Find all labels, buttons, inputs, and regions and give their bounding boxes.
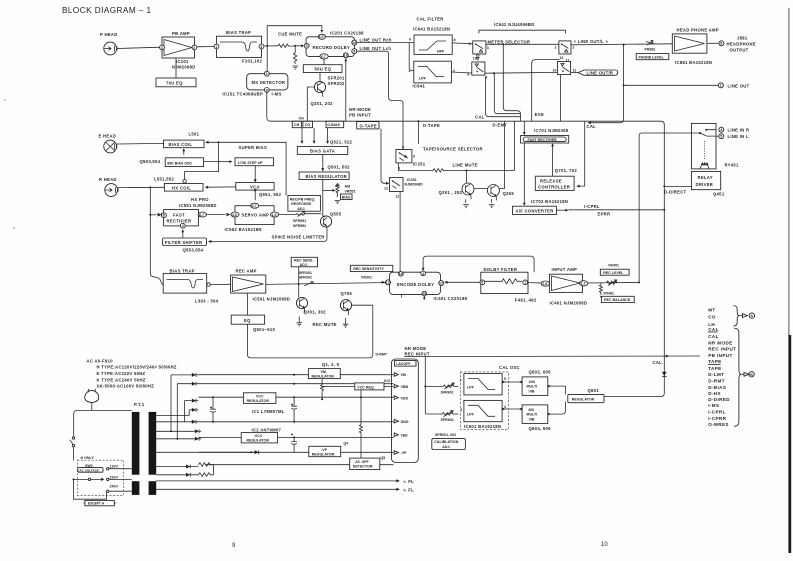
- connector arrow B: [741, 372, 754, 377]
- svg-text:< LINE OUT/L >: < LINE OUT/L >: [574, 39, 609, 44]
- svg-text:2: 2: [555, 46, 557, 50]
- resistor R613: [359, 425, 362, 465]
- wire rec amp to EQ: [246, 293, 248, 315]
- svg-text:L501: L501: [189, 132, 200, 137]
- svg-text:D-BIAS: D-BIAS: [708, 385, 726, 390]
- svg-text:BIAS COIL: BIAS COIL: [169, 142, 193, 147]
- VCC regulator box: [243, 393, 284, 414]
- wire bus vertical to relay driver: [664, 185, 691, 187]
- svg-text:D-LMT: D-LMT: [708, 372, 724, 377]
- svg-text:85K BIAS OSC: 85K BIAS OSC: [167, 161, 192, 165]
- wire Q255 to D-EMT vertical: [492, 121, 505, 203]
- svg-text:D-TAPE: D-TAPE: [423, 123, 440, 128]
- wire MS detector down to bus: [267, 92, 272, 121]
- line out vertical elbow wire: [591, 45, 624, 123]
- svg-text:9: 9: [353, 50, 355, 54]
- svg-text:1: 1: [266, 72, 268, 76]
- rec amp IC501: [231, 269, 291, 302]
- svg-text:BIAS TRAP: BIAS TRAP: [170, 269, 195, 274]
- svg-text:5: 5: [306, 44, 308, 48]
- diode D6: [195, 429, 201, 433]
- svg-text:SFR202: SFR202: [328, 81, 346, 86]
- rec sensitivity box: [350, 265, 393, 279]
- svg-text:H TYPE:AC120V/220V/240# 50/60H: H TYPE:AC120V/220V/240# 50/60HZ: [97, 364, 177, 369]
- svg-text:PB INPUT: PB INPUT: [708, 353, 732, 358]
- svg-text:REC/PB FREQ.: REC/PB FREQ.: [290, 197, 316, 201]
- junction: [465, 170, 467, 172]
- LPF 2 box: [460, 400, 506, 421]
- input amp IC401: [549, 267, 587, 306]
- svg-text:RESPONSE: RESPONSE: [291, 202, 312, 206]
- arrow into encode dolby pin 13: [382, 281, 385, 284]
- pot SFR301 on wire: [304, 282, 313, 286]
- VM rail: [198, 374, 393, 376]
- headphone output circle J881: [719, 36, 756, 53]
- resistor below VM regulator: [321, 379, 324, 400]
- AC type notes: [87, 359, 177, 389]
- svg-text:EXE: EXE: [535, 112, 544, 117]
- VCA box: [236, 183, 282, 198]
- svg-text:IC151 TC4069UBP: IC151 TC4069UBP: [223, 92, 264, 97]
- AC plug: [85, 389, 99, 403]
- svg-text:CAL: CAL: [587, 124, 597, 129]
- wire VCA to HX coil: [208, 186, 236, 188]
- svg-text:613: 613: [384, 379, 390, 383]
- svg-text:400: 400: [528, 408, 534, 412]
- svg-text:R HEAD: R HEAD: [99, 177, 117, 182]
- transistor Q251,252: [439, 183, 475, 199]
- wire fast rect to servo amp: [206, 214, 225, 216]
- svg-text:CAL FILTER: CAL FILTER: [417, 17, 444, 22]
- LPF 1 box: [460, 374, 506, 395]
- svg-text:IC881 BA15218N: IC881 BA15218N: [675, 60, 712, 65]
- svg-text:Q701, 702: Q701, 702: [555, 168, 578, 173]
- wire lpf2 to 400 multivib: [502, 408, 522, 410]
- svg-text:A: A: [751, 314, 754, 318]
- svg-text:OUTPUT: OUTPUT: [730, 48, 749, 53]
- svg-text:CAL OSC: CAL OSC: [499, 365, 520, 370]
- svg-text:-VP: -VP: [401, 451, 408, 455]
- arrow cal: [588, 121, 591, 124]
- svg-text:VCA: VCA: [250, 184, 260, 189]
- transistor Q755: [340, 291, 352, 315]
- svg-text:7: 7: [460, 379, 462, 383]
- connector pin VBB: [394, 384, 408, 389]
- svg-text:BIAS REGULATOR: BIAS REGULATOR: [306, 174, 348, 179]
- svg-text:CO: CO: [305, 123, 311, 127]
- svg-text:DETECTOR: DETECTOR: [353, 465, 373, 469]
- wire fast rectifier to A/F converter: [523, 143, 525, 203]
- svg-text:4,5: 4,5: [319, 35, 324, 39]
- svg-text:SFR601: SFR601: [441, 390, 454, 394]
- svg-text:CALIBLATION: CALIBLATION: [434, 440, 458, 444]
- svg-text:LINE OUT Lch: LINE OUT Lch: [360, 46, 392, 51]
- svg-text:Q501, 502: Q501, 502: [328, 165, 351, 170]
- connector pin GND: [394, 419, 409, 424]
- wire bias trap to node: [264, 45, 278, 47]
- svg-text:REC INPUT: REC INPUT: [405, 351, 430, 356]
- svg-text:∿ FL: ∿ FL: [403, 487, 414, 492]
- svg-text:2: 2: [193, 46, 195, 50]
- svg-text:A/F CONVERTER: A/F CONVERTER: [516, 209, 554, 214]
- wire top elbow to dolby filter: [423, 256, 534, 272]
- ground Q755: [343, 318, 349, 327]
- O-BIAS tag box: [326, 121, 344, 128]
- svg-text:Q501~510: Q501~510: [253, 327, 275, 332]
- wire E head to bias coil: [117, 142, 164, 145]
- switch contacts on mains: [70, 437, 75, 460]
- voltage selector dashed box: [77, 460, 123, 495]
- svg-text:D-EMT: D-EMT: [493, 122, 508, 127]
- brace B: [734, 328, 741, 426]
- wire R head junction down to bias trap lower: [150, 187, 163, 284]
- VEE rail: [198, 436, 393, 438]
- svg-text:16: 16: [422, 292, 426, 296]
- wire release controller to fast rectifier: [552, 146, 554, 177]
- bias trap F101,102: [214, 30, 264, 64]
- svg-text:VCC: VCC: [256, 394, 264, 398]
- wire D-EMT drop to line mute: [513, 121, 515, 170]
- svg-text:REC INPUT: REC INPUT: [708, 347, 736, 352]
- svg-text:Q301, 302: Q301, 302: [304, 310, 327, 315]
- LPF box IC641: [409, 61, 456, 88]
- svg-text:LINE MUTE: LINE MUTE: [453, 162, 478, 167]
- svg-text:BIAS: BIAS: [342, 195, 351, 199]
- svg-text:VR551: VR551: [345, 189, 356, 193]
- wire EQ to Q201: [319, 73, 321, 82]
- transformer core bars: [132, 412, 156, 495]
- cal osc dashed box: [460, 372, 508, 430]
- wire bias regulator down to Q555: [322, 180, 324, 217]
- svg-text:Q4: Q4: [344, 441, 349, 445]
- svg-text:REGULATOR: REGULATOR: [312, 453, 335, 457]
- VBB rail: [198, 383, 393, 385]
- diode D1: [171, 373, 198, 377]
- svg-text:13: 13: [386, 281, 390, 285]
- svg-text:I-CPRL: I-CPRL: [708, 410, 726, 415]
- svg-text:EPRR: EPRR: [598, 211, 611, 216]
- 70U EQ box: [156, 78, 196, 87]
- release controller box: [535, 176, 574, 190]
- wire step up to VCA: [254, 166, 256, 180]
- svg-text:K TYPE:AC240V 50HZ: K TYPE:AC240V 50HZ: [97, 377, 146, 382]
- svg-text:5: 5: [481, 281, 483, 285]
- svg-text:D-DIRECT: D-DIRECT: [664, 190, 687, 195]
- svg-text:4: 4: [161, 46, 163, 50]
- svg-text:PB INPUT: PB INPUT: [349, 113, 371, 118]
- svg-text:REC AMP: REC AMP: [236, 269, 257, 274]
- wire TL to TR: [486, 43, 559, 45]
- selector contacts 120V: [107, 465, 132, 470]
- svg-text:RECTIFIER: RECTIFIER: [167, 219, 192, 224]
- svg-text:TAPE/SOURCE SELECTOR: TAPE/SOURCE SELECTOR: [423, 146, 483, 151]
- dolby filter box: [480, 267, 537, 303]
- svg-text:16: 16: [344, 54, 348, 58]
- connector arrow A: [739, 313, 754, 318]
- svg-text:11: 11: [573, 69, 577, 73]
- A/F converter IC702: [513, 199, 569, 215]
- svg-text:VIB: VIB: [529, 390, 535, 394]
- svg-text:8: 8: [467, 72, 469, 76]
- svg-text:IC701 NJM2068: IC701 NJM2068: [534, 128, 569, 133]
- svg-text:SFR302: SFR302: [299, 276, 312, 280]
- power connector box I-ACOFF: [392, 359, 419, 463]
- secondary taps upper: [156, 416, 254, 453]
- bias gate box: [297, 146, 348, 154]
- relay driver Q451: [691, 171, 724, 196]
- brace A: [733, 306, 739, 327]
- svg-text:220V: 220V: [110, 475, 119, 479]
- svg-text:EQ: EQ: [244, 318, 251, 323]
- svg-text:Q553,554: Q553,554: [183, 248, 204, 253]
- svg-text:SFR552: SFR552: [293, 224, 306, 228]
- svg-text:170K STEP UP: 170K STEP UP: [238, 161, 264, 165]
- wires CH CO to bias gate: [301, 128, 353, 145]
- svg-text:GND: GND: [401, 420, 409, 424]
- wire line in to input amp vertical: [639, 133, 694, 282]
- line mute wire: [399, 162, 515, 172]
- svg-text:NJM2068D: NJM2068D: [172, 65, 196, 70]
- pot VR551 with BIAS label: [323, 184, 356, 204]
- svg-text:SFR551: SFR551: [293, 219, 306, 223]
- pot SFR601: [441, 383, 459, 394]
- wire BL to BR: [485, 71, 558, 74]
- page border right edge: [788, 8, 790, 335]
- svg-text:IC551 NJM2068D: IC551 NJM2068D: [179, 203, 217, 208]
- wire lpf to switch BL: [451, 72, 471, 73]
- 85K bias osc Q503,504: [140, 158, 204, 167]
- wire Q555 emitter to filter shifter: [211, 229, 328, 241]
- svg-text:Q1, 2, 5: Q1, 2, 5: [322, 362, 340, 367]
- CAL drop to release controller: [578, 121, 585, 186]
- diode into fast rectifier: [150, 214, 156, 216]
- 400 multivib box: [522, 405, 548, 424]
- svg-text:4,5: 4,5: [232, 213, 237, 217]
- diode D9: [156, 473, 198, 477]
- svg-text:Q551, 552: Q551, 552: [259, 192, 282, 197]
- switch box TR: [555, 41, 575, 63]
- svg-text:SUPER BIAS: SUPER BIAS: [239, 145, 268, 150]
- CO tag box: [303, 121, 313, 128]
- diode D7: [195, 437, 201, 441]
- svg-text:F461, 462: F461, 462: [515, 298, 537, 303]
- pin circle 9 line out Lch: [352, 46, 403, 149]
- svg-text:LINE OUT Rch: LINE OUT Rch: [360, 38, 392, 43]
- svg-text:14: 14: [399, 272, 403, 276]
- signal list B group: [708, 327, 736, 427]
- svg-text:CH: CH: [294, 123, 300, 127]
- svg-text:MT: MT: [708, 307, 715, 312]
- VCC REQ box: [355, 379, 390, 390]
- arrow into record dolby: [295, 45, 302, 47]
- svg-text:BLOCK DIAGRAM – 1: BLOCK DIAGRAM – 1: [62, 6, 152, 15]
- wire R head to HX coil: [118, 186, 165, 188]
- 10K multivib box: [522, 377, 548, 396]
- svg-text:VCC REQ.: VCC REQ.: [357, 385, 374, 389]
- switch box IC251 lower: [384, 178, 403, 199]
- VM regulator box: [308, 369, 340, 379]
- svg-text:REGULATOR: REGULATOR: [572, 398, 595, 402]
- svg-text:4: 4: [422, 272, 424, 276]
- svg-text:FAST RECTIFIER: FAST RECTIFIER: [528, 138, 558, 142]
- svg-text:CAL.: CAL.: [653, 360, 664, 365]
- svg-text:FAST: FAST: [173, 212, 185, 217]
- switch box BR: [553, 62, 577, 75]
- diode on CAL vertical: [662, 372, 667, 376]
- encode dolby IC401: [386, 271, 468, 301]
- bias trap lower L303-304: [163, 269, 218, 304]
- FL line 1: [156, 479, 414, 484]
- svg-text:AC VOLTAGE: AC VOLTAGE: [79, 468, 99, 472]
- wire amp to headphone jack: [707, 42, 719, 44]
- svg-text:CUE MUTE: CUE MUTE: [278, 32, 302, 37]
- svg-text:SFR301: SFR301: [299, 271, 312, 275]
- bias coil L501: [164, 132, 204, 148]
- svg-text:HPF: HPF: [437, 50, 445, 54]
- pot VR481 REC BALANCE: [599, 283, 634, 303]
- svg-text:Q601: Q601: [588, 388, 600, 393]
- HPF box IC641: [409, 35, 456, 54]
- -VP rail: [198, 451, 393, 453]
- diode D3: [185, 399, 199, 403]
- svg-text:CO: CO: [708, 315, 716, 320]
- svg-text:VR481: VR481: [603, 292, 614, 296]
- meter selector verticals to bus: [486, 44, 521, 121]
- wire IC251 lower to encode dolby top pin: [399, 192, 401, 273]
- wire top loop MS node to dolby pin 4: [267, 26, 322, 46]
- wire to rec sens: [298, 267, 300, 284]
- svg-text:PB AMP: PB AMP: [172, 31, 190, 36]
- svg-text:IC401 CX20188: IC401 CX20188: [434, 296, 468, 301]
- svg-text:E TYPE:AC220V 50HZ: E TYPE:AC220V 50HZ: [97, 371, 146, 376]
- svg-text:LPF: LPF: [467, 386, 475, 390]
- svg-text:VBB: VBB: [401, 385, 409, 389]
- svg-text:50U EQ: 50U EQ: [315, 67, 332, 72]
- AC OFF detector rail: [206, 464, 394, 466]
- svg-text:VM: VM: [321, 370, 326, 374]
- cap C2: [291, 397, 297, 422]
- line out circle 1: [718, 83, 749, 89]
- svg-text:1,5: 1,5: [272, 213, 277, 217]
- svg-text:F101,102: F101,102: [242, 59, 262, 64]
- svg-text:IC101: IC101: [176, 59, 189, 64]
- svg-text:I-MS: I-MS: [272, 91, 282, 96]
- svg-text:IC251: IC251: [413, 162, 426, 167]
- svg-text:L551,552: L551,552: [154, 176, 174, 181]
- svg-text:CH: CH: [299, 117, 305, 121]
- IC642 label and bracket: [479, 22, 566, 34]
- svg-text:B: B: [750, 373, 753, 377]
- svg-text:REGULATOR: REGULATOR: [247, 439, 270, 443]
- svg-text:-VCC: -VCC: [254, 434, 263, 438]
- svg-text:PR881: PR881: [645, 48, 656, 52]
- svg-text:MS DETECTOR: MS DETECTOR: [252, 80, 286, 85]
- svg-text:HX PRO: HX PRO: [191, 197, 209, 202]
- svg-text:Q555: Q555: [330, 211, 342, 216]
- junction line out: [623, 44, 625, 46]
- svg-text:IC641 BA15218N: IC641 BA15218N: [413, 27, 450, 32]
- svg-text:IC401 NJM2068D: IC401 NJM2068D: [550, 300, 588, 305]
- R head: [99, 177, 118, 196]
- svg-text:FILTER SHIFTER: FILTER SHIFTER: [165, 240, 203, 245]
- diode D8: [156, 465, 198, 469]
- svg-text:CAL: CAL: [708, 334, 719, 339]
- wire dolby filter to encode dolby: [447, 281, 480, 283]
- 50U EQ box: [303, 65, 342, 73]
- pot SFR602: [441, 411, 459, 423]
- pot PR881: [645, 40, 656, 51]
- pill 6,7 output: [579, 281, 587, 286]
- svg-text:SPIKE NOISE LIMITTER: SPIKE NOISE LIMITTER: [272, 234, 325, 239]
- wire osc to bias coil arrow: [183, 150, 185, 155]
- wire hpf input loop to lpf: [409, 43, 414, 71]
- EQ box: [231, 315, 275, 332]
- wire VCA to servo amp: [254, 190, 256, 200]
- svg-text:REC SENS.: REC SENS.: [294, 259, 313, 263]
- svg-text:INPUT AMP: INPUT AMP: [552, 267, 578, 272]
- junction: [493, 72, 495, 74]
- svg-text:RELAY: RELAY: [698, 175, 713, 180]
- svg-text:6: 6: [413, 155, 415, 159]
- svg-text:LPF: LPF: [467, 412, 475, 416]
- svg-text:2,8: 2,8: [542, 282, 547, 286]
- wire node to rec amp: [210, 283, 230, 285]
- switch box IC251 upper: [396, 145, 426, 170]
- svg-text:10K: 10K: [529, 380, 536, 384]
- wire rec amp out: [266, 283, 386, 285]
- PB amp IC101: [160, 31, 197, 70]
- svg-text:RECORD DOLBY: RECORD DOLBY: [313, 45, 351, 50]
- svg-text:CAL: CAL: [475, 114, 485, 119]
- resistor VR481 on wire: [607, 281, 618, 284]
- diode on -VP rail: [250, 450, 259, 454]
- svg-text:14: 14: [352, 41, 356, 45]
- pin circle 16 pb out: [343, 53, 348, 121]
- svg-text:6,7: 6,7: [321, 55, 326, 59]
- E head: [99, 134, 117, 153]
- wire osc to 170k step up: [185, 142, 230, 180]
- svg-text:5: 5: [504, 377, 506, 381]
- svg-text:P HEAD: P HEAD: [100, 32, 118, 37]
- svg-text:3: 3: [260, 45, 262, 49]
- svg-text:8: 8: [454, 38, 456, 42]
- diode D4: [189, 408, 198, 416]
- stray mark left: [4, 99, 5, 100]
- EXCEPT H note: [82, 500, 117, 505]
- wire bus to fast rectifier: [523, 121, 525, 133]
- svg-text:Q251 , 252: Q251 , 252: [439, 190, 463, 195]
- rectifier verticals: [171, 375, 185, 439]
- svg-text:LINE OUT/R: LINE OUT/R: [587, 71, 614, 76]
- svg-text:LINE OUT: LINE OUT: [728, 83, 750, 88]
- wire junction down to Q251: [466, 171, 488, 203]
- svg-text:240V: 240V: [110, 485, 119, 489]
- AC OFF detector box: [350, 456, 386, 470]
- svg-text:D-DIRED: D-DIRED: [708, 397, 730, 402]
- svg-text:ADJ.: ADJ.: [300, 263, 308, 267]
- ground Q301: [297, 317, 303, 327]
- wire PB amp to bias trap: [197, 46, 214, 48]
- svg-text:∿ FL: ∿ FL: [403, 479, 414, 484]
- svg-text:VR301: VR301: [361, 276, 372, 280]
- svg-text:Q201, 202: Q201, 202: [311, 101, 334, 106]
- svg-text:16: 16: [473, 57, 477, 61]
- wire plug to transformer: [74, 402, 132, 436]
- diode D5: [192, 420, 199, 424]
- svg-text:IC641: IC641: [413, 84, 426, 89]
- svg-text:IC501 NJM2068D: IC501 NJM2068D: [253, 297, 291, 302]
- VDD rail: [198, 396, 393, 398]
